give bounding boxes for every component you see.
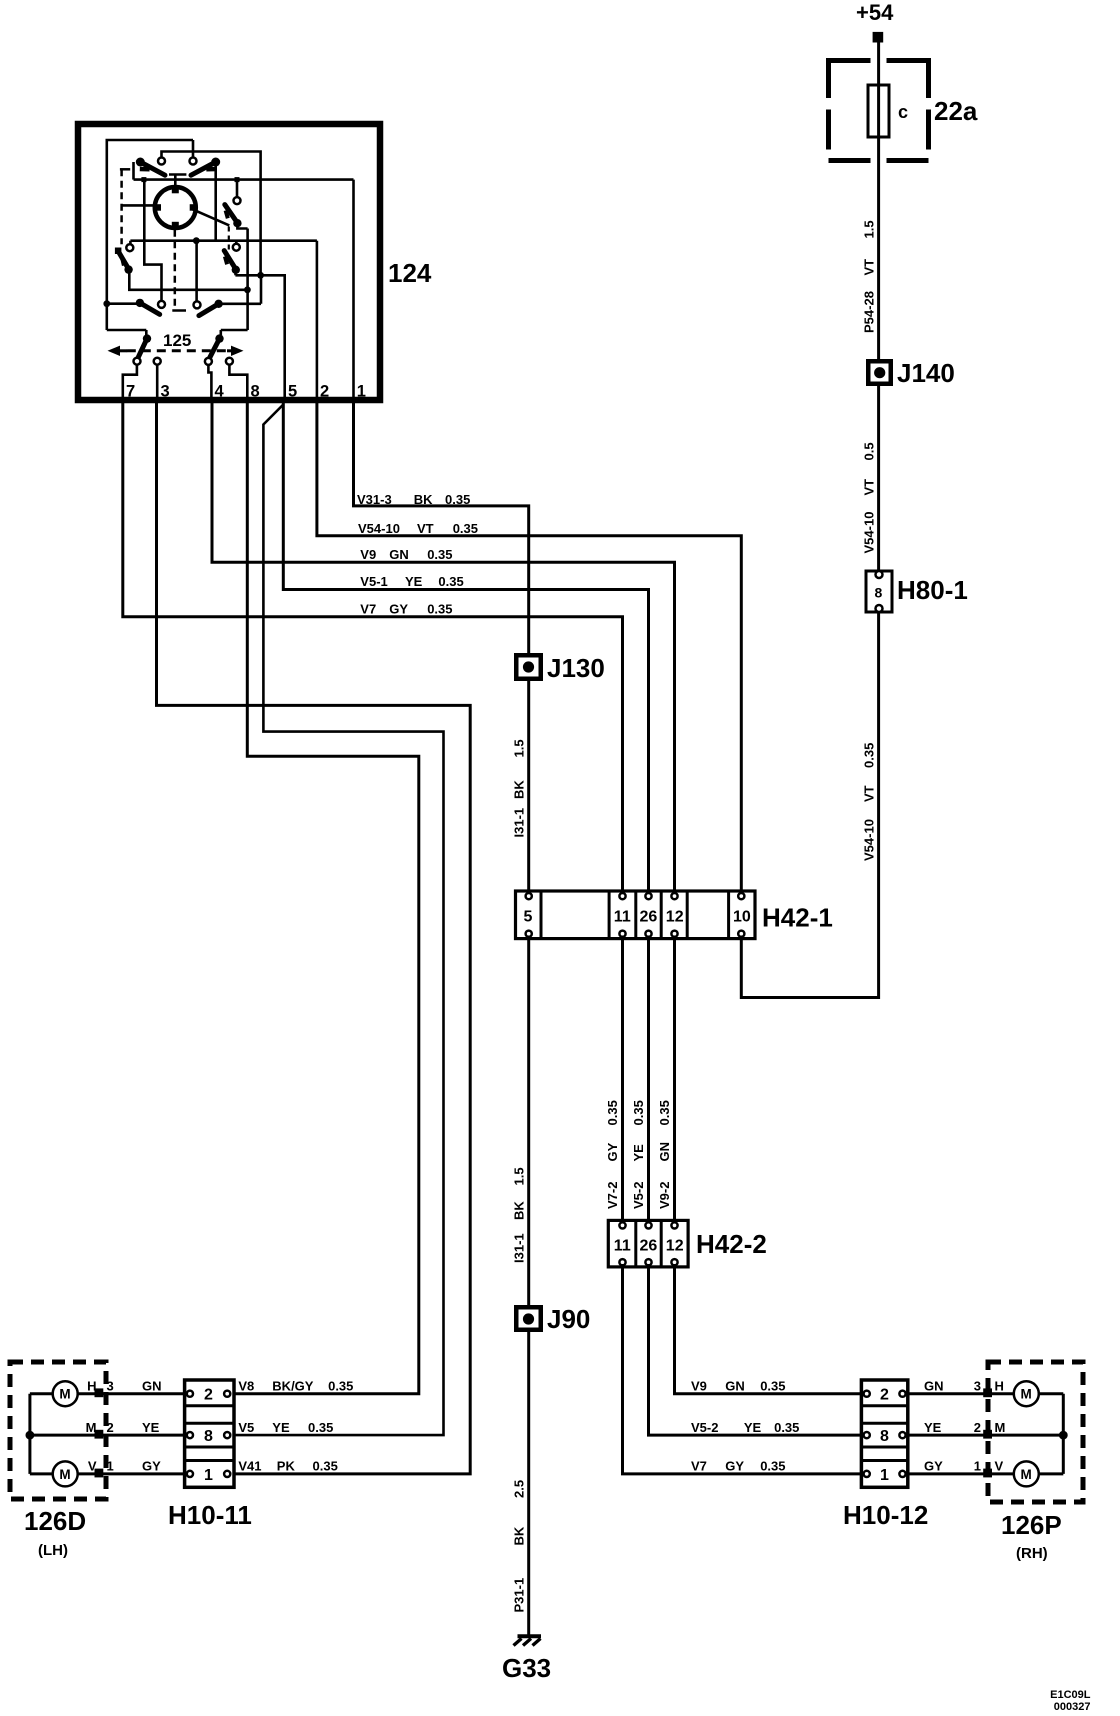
contact circle bottom right center [194, 301, 201, 308]
svg-text:E1C09L: E1C09L [1050, 1689, 1091, 1701]
svg-text:VT: VT [861, 259, 876, 276]
svg-text:PK: PK [277, 1459, 296, 1474]
wire contact to pin 7 [123, 365, 137, 403]
wire contact to pin 3 [156, 365, 159, 403]
selector switch 125 right: shoulder wire [221, 330, 248, 335]
svg-text:0.35: 0.35 [438, 574, 463, 589]
pin 12 [671, 893, 677, 899]
svg-text:GN: GN [725, 1378, 745, 1393]
svg-text:4: 4 [215, 383, 225, 401]
svg-text:H: H [87, 1378, 96, 1393]
svg-text:P31-1: P31-1 [511, 1578, 526, 1613]
ground G33 [514, 1636, 542, 1645]
wire pin2 inside box [316, 241, 319, 403]
svg-text:M: M [59, 1387, 70, 1402]
mechanical center dashed line [174, 230, 177, 308]
svg-text:+54: +54 [856, 0, 894, 25]
svg-text:000327: 000327 [1054, 1701, 1091, 1713]
wire from top left contact to right branch [162, 152, 261, 276]
wire stub from line B to right upper contact [236, 180, 239, 197]
connector H42-1 [516, 891, 756, 939]
connector H42-2 [608, 1220, 688, 1267]
svg-text:YE: YE [924, 1420, 942, 1435]
wire pin1 to H42-1 pin 5 through J130 (V31-3 BK) [354, 403, 529, 891]
contact circle right upper [234, 197, 241, 204]
pin 11 [619, 893, 625, 899]
svg-text:YE: YE [272, 1420, 290, 1435]
wire supply down from +54 terminal through fuse 22a to J140 [877, 42, 880, 571]
svg-text:V9: V9 [360, 547, 376, 562]
wire mid bus to pin 2 [130, 241, 317, 244]
svg-text:22a: 22a [934, 96, 978, 126]
svg-text:V5-2: V5-2 [631, 1182, 646, 1209]
joystick wiper diagonal [191, 209, 230, 226]
svg-text:YE: YE [142, 1420, 160, 1435]
svg-text:V7: V7 [691, 1459, 707, 1474]
mirror assembly 126D dashed box [10, 1362, 106, 1499]
mirror switch unit 124 outer box [78, 124, 380, 400]
pin 10 [738, 893, 744, 899]
svg-text:1: 1 [357, 383, 366, 401]
joystick stem T [169, 175, 186, 189]
svg-text:BK/GY: BK/GY [272, 1378, 314, 1393]
svg-text:I31-1: I31-1 [511, 1233, 526, 1263]
contact circle top right center [190, 158, 197, 165]
svg-text:11: 11 [614, 909, 631, 926]
svg-text:8: 8 [251, 383, 260, 401]
svg-text:2.5: 2.5 [511, 1480, 526, 1498]
wire H80-1 down to H42-1 pin 10 [741, 612, 878, 998]
svg-text:126P: 126P [1001, 1510, 1062, 1540]
svg-text:GN: GN [924, 1378, 944, 1393]
junction dot [257, 272, 264, 279]
wire pin4 to H42-1 pin 12 (V9 GN) [212, 403, 675, 891]
svg-text:126D: 126D [24, 1506, 86, 1536]
svg-text:BK: BK [414, 492, 433, 507]
mechanical link dashes right [228, 227, 230, 252]
svg-text:10: 10 [733, 909, 751, 926]
junction dot on mid bus [193, 237, 200, 244]
contact circle top left center [158, 158, 165, 165]
contact circle pin4 [205, 358, 212, 365]
svg-text:1: 1 [974, 1459, 981, 1474]
selector 125 travel dashes with arrows [127, 349, 227, 352]
svg-text:VT: VT [417, 521, 434, 536]
svg-text:GN: GN [142, 1378, 162, 1393]
svg-text:7: 7 [126, 383, 135, 401]
svg-text:1: 1 [107, 1459, 114, 1474]
svg-text:VT: VT [861, 479, 876, 496]
svg-text:H80-1: H80-1 [897, 575, 968, 605]
svg-text:0.35: 0.35 [445, 492, 470, 507]
wire pin2 to H42-1 pin 10 (V54-10 VT) [317, 403, 741, 891]
svg-text:V: V [995, 1459, 1004, 1474]
motor M horizontal 126D [53, 1381, 78, 1406]
svg-text:1.5: 1.5 [511, 739, 526, 757]
svg-text:J140: J140 [897, 358, 955, 388]
switch arm bottom right [199, 275, 261, 315]
joystick rotary circle [155, 187, 196, 228]
svg-text:V54-10: V54-10 [861, 512, 876, 554]
wire pin5 to H42-1 pin 26 (V5-1 YE) [283, 403, 648, 891]
wire contact to pin 4 [208, 365, 211, 403]
svg-text:3: 3 [107, 1378, 114, 1393]
contact stub top right center [192, 140, 195, 157]
svg-text:26: 26 [640, 909, 658, 926]
wire pin5 branch to H10-11 pin8 (V5 YE) [234, 405, 444, 1436]
svg-text:V54-10: V54-10 [861, 819, 876, 861]
wires H10-12 to 126P [908, 1394, 1064, 1474]
svg-text:0.35: 0.35 [760, 1378, 785, 1393]
wire line B to pin 1 [134, 178, 354, 181]
splice J140 [868, 361, 891, 384]
switch arm right upper [225, 205, 248, 330]
svg-text:J90: J90 [547, 1304, 590, 1334]
svg-text:H10-11: H10-11 [168, 1500, 252, 1530]
svg-text:M: M [59, 1467, 70, 1482]
wire H42-1 pin 5 down through J90 to G33 [527, 939, 530, 1635]
connector H10-12 [861, 1380, 907, 1487]
switch arm top right [191, 158, 220, 176]
svg-text:8: 8 [875, 585, 883, 601]
svg-text:GY: GY [725, 1459, 744, 1474]
svg-text:124: 124 [388, 258, 432, 288]
svg-text:M: M [995, 1420, 1006, 1435]
switch arm top left [136, 158, 165, 176]
svg-text:0.35: 0.35 [328, 1378, 353, 1393]
svg-text:V54-10: V54-10 [358, 521, 400, 536]
svg-text:GY: GY [924, 1459, 943, 1474]
splice J90 [516, 1307, 541, 1330]
selector arm right [215, 334, 223, 342]
svg-text:8: 8 [880, 1428, 889, 1445]
svg-text:V9: V9 [691, 1378, 707, 1393]
wires inside 126D [30, 1394, 185, 1474]
svg-text:0.35: 0.35 [631, 1100, 646, 1125]
svg-text:M: M [86, 1420, 97, 1435]
motor M horizontal 126P [1014, 1381, 1039, 1406]
svg-text:0.35: 0.35 [308, 1420, 333, 1435]
pin marker squares 126D [95, 1388, 104, 1397]
svg-text:GN: GN [657, 1142, 672, 1162]
svg-text:J130: J130 [547, 653, 605, 683]
svg-text:1.5: 1.5 [511, 1167, 526, 1185]
rotary circle nubs [172, 187, 179, 194]
svg-text:(LH): (LH) [38, 1542, 68, 1559]
contact circle pin8 [226, 358, 233, 365]
svg-text:V7: V7 [360, 602, 376, 617]
svg-text:P54-28: P54-28 [861, 291, 876, 333]
svg-text:0.35: 0.35 [453, 521, 478, 536]
svg-text:V9-2: V9-2 [657, 1182, 672, 1209]
svg-text:GY: GY [605, 1142, 620, 1161]
motor M vertical 126D [53, 1461, 78, 1486]
svg-text:(RH): (RH) [1016, 1545, 1048, 1562]
svg-text:11: 11 [614, 1238, 631, 1255]
svg-text:2: 2 [204, 1387, 213, 1404]
wire branch down to bottom left center contact [144, 180, 161, 301]
contact circle pin7 [134, 358, 141, 365]
junction nub on line B [141, 177, 146, 182]
svg-text:125: 125 [163, 331, 191, 350]
svg-text:0.35: 0.35 [427, 547, 452, 562]
svg-text:0.35: 0.35 [657, 1100, 672, 1125]
wire H42-2 pin 12 to H10-12 pin 2 [675, 1267, 862, 1394]
svg-text:0.35: 0.35 [427, 602, 452, 617]
svg-text:V5-2: V5-2 [691, 1420, 718, 1435]
terminal square +54 [873, 32, 884, 43]
connector H80-1 pin 8 [866, 571, 892, 612]
svg-text:GN: GN [389, 547, 409, 562]
svg-text:3: 3 [161, 383, 170, 401]
svg-text:V8: V8 [238, 1378, 254, 1393]
selector switch 125 left: shoulder wire [107, 330, 147, 335]
wires H42-1 pins 11 26 12 down to H42-2 [623, 939, 675, 1220]
wire stub to bottom right center contact [195, 241, 198, 301]
svg-text:H42-2: H42-2 [696, 1229, 767, 1259]
svg-text:26: 26 [640, 1238, 658, 1255]
svg-text:c: c [898, 102, 908, 122]
svg-text:12: 12 [666, 909, 684, 926]
fuse element C [868, 85, 889, 137]
svg-text:5: 5 [288, 383, 297, 401]
svg-text:V: V [88, 1459, 97, 1474]
selector arm left [143, 334, 151, 342]
wire left approach to rotary [122, 204, 156, 207]
wire from top left arm to line B [132, 162, 135, 180]
svg-text:2: 2 [974, 1420, 981, 1435]
junction dot 126P [1059, 1431, 1068, 1440]
wire pin1 inside box [352, 180, 355, 403]
svg-text:V31-3: V31-3 [357, 492, 392, 507]
svg-text:0.35: 0.35 [774, 1420, 799, 1435]
mirror assembly 126P dashed box [988, 1362, 1083, 1502]
contact circle bottom left center [158, 301, 165, 308]
svg-text:V41: V41 [238, 1459, 261, 1474]
wire pin7 to H42-1 pin 11 (V7 GY) [123, 403, 623, 891]
svg-text:YE: YE [631, 1144, 646, 1162]
svg-text:3: 3 [974, 1378, 981, 1393]
svg-text:YE: YE [405, 574, 423, 589]
wire H42-2 pin 11 to H10-12 pin 1 [623, 1267, 862, 1474]
pin marker squares 126P [983, 1388, 992, 1397]
switch arm left mid [115, 248, 251, 294]
wire pin8 to H10-11 pin2 (V8 BK/GY) [234, 403, 419, 1394]
wire contact to pin 8 [229, 365, 247, 403]
svg-text:BK: BK [511, 1526, 526, 1545]
switch arm right lower [224, 251, 240, 276]
switch arm bottom left [103, 299, 159, 315]
motor M vertical 126P [1014, 1461, 1039, 1486]
svg-text:1: 1 [204, 1467, 213, 1484]
svg-text:2: 2 [107, 1420, 114, 1435]
contact circle right lower [233, 244, 240, 251]
svg-text:H42-1: H42-1 [762, 903, 833, 933]
svg-text:I31-1: I31-1 [511, 808, 526, 838]
wire pin3 to H10-11 pin1 (V41 PK) [157, 403, 471, 1474]
svg-text:VT: VT [861, 785, 876, 802]
svg-text:1: 1 [880, 1467, 889, 1484]
svg-text:BK: BK [511, 780, 526, 799]
svg-text:M: M [1021, 1387, 1032, 1402]
svg-text:H: H [995, 1378, 1004, 1393]
fuse holder 22a dashed box [829, 58, 929, 63]
wires inside 126P [1039, 1394, 1064, 1474]
svg-text:5: 5 [524, 909, 533, 926]
svg-text:0.35: 0.35 [760, 1459, 785, 1474]
connector H10-11 [185, 1380, 234, 1487]
pin 5 [526, 893, 532, 899]
junction dot 126D [26, 1431, 35, 1440]
svg-text:0.35: 0.35 [313, 1459, 338, 1474]
svg-text:V5: V5 [238, 1420, 254, 1435]
svg-text:2: 2 [320, 383, 329, 401]
splice J130 [516, 655, 541, 679]
wire left bus inside 124 [107, 140, 193, 330]
svg-text:0.35: 0.35 [605, 1100, 620, 1125]
svg-text:GY: GY [389, 602, 408, 617]
wires 126D motors to H10-11 [78, 1394, 185, 1474]
contact circle left mid [126, 244, 133, 251]
svg-text:H10-12: H10-12 [843, 1500, 928, 1530]
svg-text:2: 2 [880, 1387, 889, 1404]
mechanical left dashed line [120, 169, 123, 244]
svg-text:V5-1: V5-1 [360, 574, 387, 589]
wire H42-2 pin 26 to H10-12 pin 8 [649, 1267, 862, 1435]
svg-text:BK: BK [511, 1201, 526, 1220]
svg-text:1.5: 1.5 [861, 220, 876, 238]
contact circle pin3 [154, 358, 161, 365]
svg-text:8: 8 [204, 1428, 213, 1445]
pin 26 [645, 893, 651, 899]
svg-text:0.5: 0.5 [861, 442, 876, 460]
svg-text:V7-2: V7-2 [605, 1182, 620, 1209]
wire top right arm pivot down to mid bus [214, 161, 217, 241]
wire mid right horizontal to pin 5 [235, 275, 284, 397]
svg-text:G33: G33 [502, 1653, 551, 1683]
svg-text:M: M [1021, 1467, 1032, 1482]
svg-text:0.35: 0.35 [861, 743, 876, 768]
svg-text:12: 12 [666, 1238, 684, 1255]
svg-text:YE: YE [744, 1420, 762, 1435]
svg-text:GY: GY [142, 1459, 161, 1474]
